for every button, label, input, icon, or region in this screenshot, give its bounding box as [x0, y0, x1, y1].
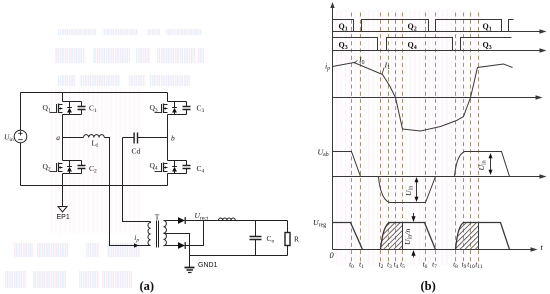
svg-text:Ureg: Ureg — [313, 218, 326, 229]
svg-text:C4: C4 — [197, 164, 205, 175]
svg-text:GND1: GND1 — [198, 262, 218, 269]
svg-text:(b): (b) — [421, 279, 436, 293]
svg-text:Q4: Q4 — [150, 161, 158, 172]
svg-text:Uin: Uin — [4, 133, 14, 144]
svg-text:C3: C3 — [197, 104, 205, 115]
svg-text:Uab: Uab — [318, 148, 329, 159]
svg-text:Q2: Q2 — [43, 162, 51, 173]
svg-text:0: 0 — [330, 250, 335, 260]
svg-text:R: R — [294, 234, 299, 243]
svg-text:Co: Co — [267, 234, 275, 245]
svg-text:EP1: EP1 — [57, 214, 70, 221]
svg-text:Q3: Q3 — [483, 41, 492, 52]
svg-text:Cd: Cd — [132, 147, 141, 156]
svg-text:Q1: Q1 — [43, 103, 51, 114]
svg-text:b: b — [171, 133, 175, 142]
svg-text:ip: ip — [134, 233, 139, 244]
svg-text:(a): (a) — [140, 279, 155, 293]
svg-text:a: a — [56, 133, 60, 142]
svg-text:Q1: Q1 — [483, 22, 492, 33]
svg-text:Urect: Urect — [195, 211, 209, 222]
svg-text:t: t — [541, 242, 544, 252]
svg-text:T: T — [155, 212, 160, 221]
svg-text:Q3: Q3 — [150, 103, 158, 114]
svg-text:ip: ip — [325, 62, 330, 73]
